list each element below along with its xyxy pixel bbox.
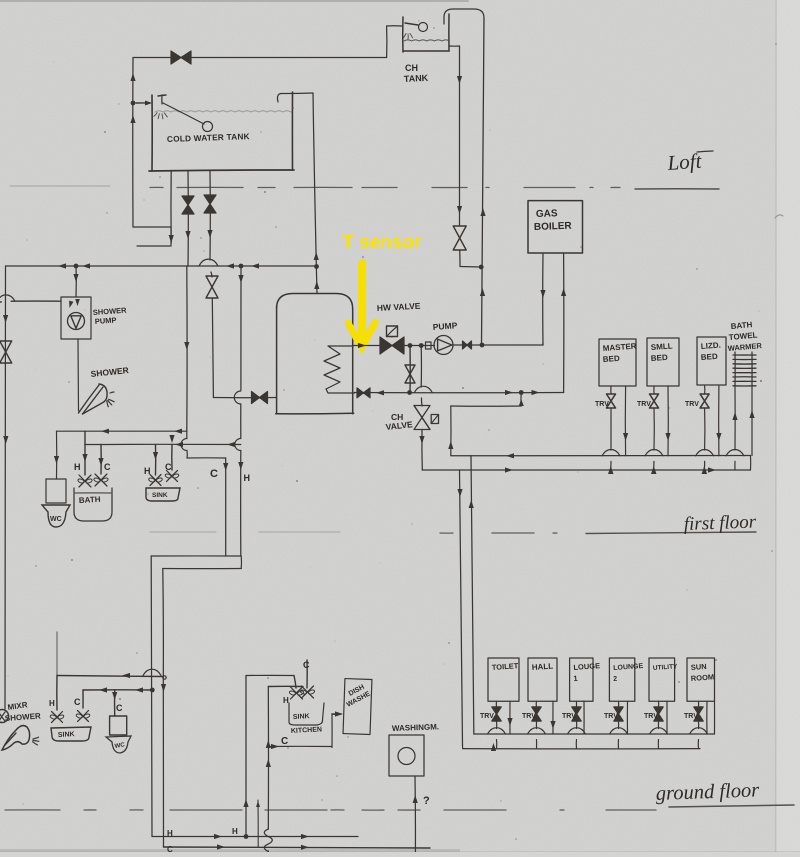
- svg-text:BED: BED: [651, 353, 669, 363]
- svg-text:SMLL: SMLL: [651, 341, 673, 352]
- svg-text:BATH: BATH: [730, 320, 753, 331]
- svg-text:C: C: [74, 697, 81, 707]
- svg-text:TRV: TRV: [562, 713, 576, 720]
- svg-text:H: H: [232, 827, 238, 836]
- svg-text:C: C: [210, 468, 218, 480]
- svg-text:?: ?: [423, 795, 430, 807]
- svg-text:1: 1: [573, 674, 578, 683]
- svg-text:ROOM: ROOM: [691, 672, 715, 683]
- svg-text:first floor: first floor: [683, 511, 757, 535]
- svg-text:PUMP: PUMP: [432, 320, 458, 332]
- svg-text:PUMP: PUMP: [95, 316, 117, 326]
- svg-text:BED: BED: [603, 354, 621, 364]
- svg-text:SUN: SUN: [691, 662, 707, 672]
- svg-text:LIZD.: LIZD.: [701, 341, 722, 351]
- svg-text:TRV: TRV: [644, 713, 658, 720]
- svg-text:TRV: TRV: [604, 713, 618, 720]
- svg-text:TANK: TANK: [404, 73, 429, 84]
- svg-text:C: C: [303, 660, 310, 670]
- svg-text:GAS: GAS: [536, 208, 558, 220]
- svg-text:SINK: SINK: [293, 713, 310, 721]
- svg-text:WASHINGM.: WASHINGM.: [392, 722, 439, 733]
- svg-text:CH: CH: [405, 63, 418, 73]
- svg-text:H: H: [283, 696, 289, 705]
- svg-text:BOILER: BOILER: [534, 221, 573, 233]
- svg-text:TRV: TRV: [522, 713, 536, 720]
- svg-text:H: H: [167, 829, 173, 838]
- svg-text:LOUGE: LOUGE: [573, 661, 600, 672]
- svg-text:TOILET: TOILET: [492, 661, 520, 672]
- svg-text:2: 2: [613, 676, 617, 683]
- svg-text:ground floor: ground floor: [655, 779, 760, 805]
- svg-text:TRV: TRV: [685, 401, 699, 408]
- svg-text:SINK: SINK: [152, 492, 168, 499]
- svg-text:HALL: HALL: [532, 662, 554, 672]
- svg-text:H: H: [244, 473, 251, 483]
- svg-text:TRV: TRV: [480, 713, 494, 720]
- svg-text:H: H: [74, 462, 81, 472]
- svg-text:TRV: TRV: [684, 713, 698, 720]
- svg-text:TRV: TRV: [637, 401, 651, 408]
- svg-text:BATH: BATH: [79, 495, 101, 505]
- svg-text:C: C: [116, 703, 123, 713]
- svg-text:C: C: [104, 462, 111, 472]
- svg-text:TRV: TRV: [595, 401, 609, 408]
- svg-text:SINK: SINK: [58, 731, 75, 739]
- svg-text:C: C: [281, 736, 288, 747]
- svg-text:WC: WC: [50, 516, 62, 523]
- svg-text:H: H: [49, 699, 55, 708]
- svg-text:BED: BED: [701, 352, 719, 362]
- svg-text:T sensor: T sensor: [342, 232, 422, 253]
- svg-text:C: C: [167, 845, 173, 852]
